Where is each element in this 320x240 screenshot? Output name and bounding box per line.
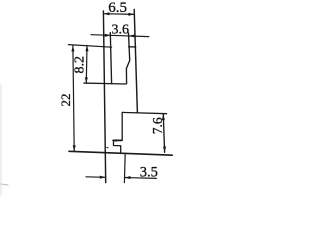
arrow 22 top xyxy=(71,46,74,52)
slot bottom / 8.2 extension line xyxy=(84,82,126,85)
inner right wall (wavy) xyxy=(126,33,129,84)
dim line 8.2 xyxy=(85,45,88,83)
long bottom line xyxy=(69,151,172,155)
top extension line for 22 and 8.2 xyxy=(68,45,111,48)
svg-text:8.2: 8.2 xyxy=(73,56,88,74)
arrow 7.6 top xyxy=(162,114,165,120)
right outer vertical wall xyxy=(134,9,137,113)
arrow 8.2 top xyxy=(85,46,88,52)
right wall slot bottom step xyxy=(129,46,136,48)
dim line 22 xyxy=(73,46,74,152)
3.5 dim line left piece xyxy=(86,176,106,179)
svg-text:7.6: 7.6 xyxy=(150,117,165,134)
svg-text:22: 22 xyxy=(58,94,73,107)
box top edge xyxy=(122,112,166,113)
3.5 right extension tick xyxy=(123,153,126,182)
svg-text:6.5: 6.5 xyxy=(108,0,127,16)
foot leader arrow (points left) xyxy=(112,139,117,142)
small mark on left wall xyxy=(106,147,109,149)
arrow 3.6 right (points left) xyxy=(129,34,135,37)
faint scanner streak left edge xyxy=(0,85,2,195)
arrow 22 bottom xyxy=(73,145,76,151)
arrow 6.5 left xyxy=(104,12,110,15)
dim line 3.6 xyxy=(91,35,149,37)
left long vertical (outer wall / extension line) xyxy=(103,11,105,183)
7.6 dim line / box right edge xyxy=(163,114,164,152)
svg-text:3.5: 3.5 xyxy=(140,164,158,180)
dim line 6.5 xyxy=(104,13,135,16)
3.5 dim line right piece (underline of text) xyxy=(125,177,157,180)
arrow 3.6 left (points right) xyxy=(105,34,111,37)
arrow 7.6 bottom xyxy=(163,147,166,153)
thick step segment of foot xyxy=(113,139,122,141)
arrow 6.5 right xyxy=(128,13,134,16)
arrow 8.2 bottom xyxy=(85,77,88,83)
arrow 3.5 left (points right) xyxy=(100,176,106,179)
arrow 3.5 right (points left) xyxy=(125,176,131,179)
box left edge and foot zigzag xyxy=(114,113,123,153)
svg-text:3.6: 3.6 xyxy=(112,22,130,37)
inner left wall xyxy=(110,33,111,84)
